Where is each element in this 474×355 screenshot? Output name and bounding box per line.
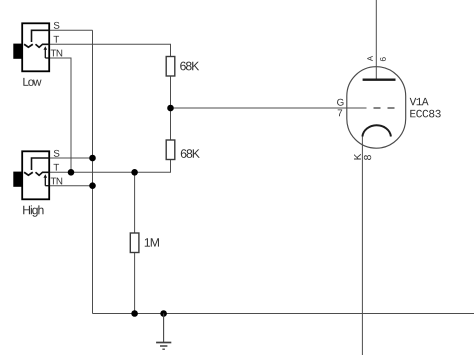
wire 1M bottom lead bbox=[134, 253, 136, 314]
jack J2 TN arrow bbox=[44, 174, 50, 186]
junction dot 1M bottom bbox=[131, 310, 138, 317]
pin label A bbox=[367, 56, 373, 61]
label Low bbox=[23, 78, 41, 86]
pin number 8 bbox=[364, 155, 371, 160]
tube V1A envelope bbox=[347, 67, 406, 149]
pin number 7 bbox=[338, 109, 342, 116]
wire R1 bottom to R2 top bbox=[170, 76, 172, 140]
pin label TN J2 bbox=[51, 178, 63, 185]
jack J1 tip contact chevron bbox=[24, 44, 33, 47]
resistor R2 68K bbox=[166, 140, 175, 160]
jack J2 sleeve contact bbox=[32, 158, 50, 170]
wire J2-S stub bbox=[50, 157, 93, 159]
junction dot 1M top bbox=[131, 169, 138, 176]
ground symbol bbox=[156, 314, 171, 350]
wire grid node to tube bbox=[171, 107, 367, 109]
pin number 6 bbox=[380, 57, 386, 61]
jack J1 TN arrow bbox=[44, 46, 50, 58]
junction dot ground stem bbox=[160, 310, 167, 317]
junction dot J2-TN on bus bbox=[89, 182, 96, 189]
resistor R1 68K bbox=[166, 57, 175, 77]
label V1A bbox=[410, 98, 429, 105]
pin label T J1 bbox=[54, 36, 60, 43]
pin label TN J1 bbox=[51, 50, 63, 57]
label 1M bbox=[145, 238, 159, 246]
wire J2-TN stub bbox=[50, 185, 93, 187]
junction dot J1-TN on T rail bbox=[68, 169, 75, 176]
wire 1M top lead bbox=[134, 172, 136, 233]
jack J1 Low body bbox=[13, 23, 49, 71]
wire J1-TN drop bbox=[50, 58, 71, 172]
label High bbox=[23, 205, 43, 216]
wire cathode down bbox=[361, 137, 363, 355]
label 68K R1 bbox=[180, 62, 199, 71]
jack J2 tip contact chevron bbox=[24, 172, 33, 175]
pin label S J2 bbox=[54, 150, 60, 157]
junction dot grid node bbox=[167, 105, 174, 112]
jack J1 ring contact chevron bbox=[36, 44, 50, 47]
pin label K bbox=[354, 154, 361, 160]
tube cathode arc bbox=[362, 125, 391, 136]
label 68K R2 bbox=[181, 149, 200, 158]
junction dot J2-S on bus bbox=[89, 155, 96, 162]
jack J2 High body bbox=[13, 151, 49, 199]
tube grid dashes bbox=[374, 107, 395, 109]
tube anode plate bbox=[363, 78, 396, 80]
wire anode supply bbox=[375, 0, 377, 80]
label ECC83 bbox=[410, 110, 440, 118]
jack J2 ring contact chevron bbox=[36, 172, 50, 175]
wire J1-T to R1 top bbox=[50, 44, 171, 56]
pin label G bbox=[337, 99, 343, 106]
pin label T J2 bbox=[54, 164, 60, 171]
wire J2-T rail to R2 bottom bbox=[50, 160, 171, 173]
resistor R3 1M bbox=[130, 233, 139, 253]
wire J1-S to ground bus bbox=[50, 29, 93, 31]
wire ground bus vertical bbox=[92, 30, 94, 313]
wire ground rail bbox=[93, 313, 474, 315]
jack J1 sleeve contact bbox=[32, 30, 50, 42]
pin label S J1 bbox=[54, 22, 60, 29]
